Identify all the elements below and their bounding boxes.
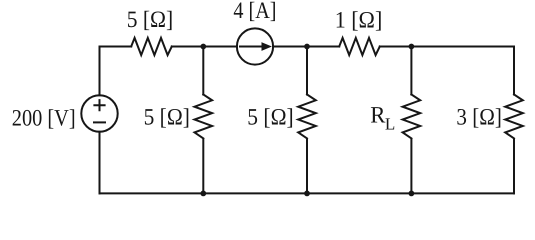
svg-text:5 [Ω]: 5 [Ω] bbox=[144, 104, 190, 130]
svg-text:L: L bbox=[385, 114, 395, 133]
svg-text:5 [Ω]: 5 [Ω] bbox=[127, 7, 174, 33]
svg-text:4 [A]: 4 [A] bbox=[233, 0, 276, 24]
svg-text:5 [Ω]: 5 [Ω] bbox=[247, 104, 293, 130]
svg-text:200 [V]: 200 [V] bbox=[12, 105, 76, 131]
svg-text:1 [Ω]: 1 [Ω] bbox=[335, 8, 383, 34]
svg-text:R: R bbox=[370, 103, 386, 129]
svg-text:3 [Ω]: 3 [Ω] bbox=[456, 104, 502, 130]
